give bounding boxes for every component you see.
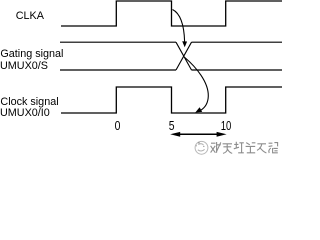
bus crossover X bbox=[176, 42, 192, 70]
svg-text:UMUX0/S: UMUX0/S bbox=[0, 60, 48, 72]
svg-text:0: 0 bbox=[115, 118, 121, 133]
bus Gating top line right bbox=[192, 41, 283, 43]
double-headed arrow between 5 and 10 bbox=[170, 132, 226, 137]
svg-text:Clock signal: Clock signal bbox=[0, 96, 58, 108]
svg-text:10: 10 bbox=[221, 118, 232, 133]
svg-text:5: 5 bbox=[169, 118, 175, 133]
bus Gating top line left bbox=[60, 41, 176, 43]
watermark logo circle bbox=[195, 141, 208, 154]
watermark text (stylized CJK strokes) bbox=[211, 142, 278, 154]
arrow from crossover to Clock signal bbox=[185, 58, 209, 113]
bus Gating bottom line left bbox=[60, 69, 176, 71]
arrow from CLKA falling edge to crossover bbox=[173, 10, 188, 48]
waveform CLKA bbox=[61, 1, 282, 26]
svg-text:Gating signal: Gating signal bbox=[0, 48, 63, 60]
svg-text:UMUX0/I0: UMUX0/I0 bbox=[0, 107, 50, 119]
bus Gating bottom line right bbox=[192, 69, 283, 71]
svg-text:CLKA: CLKA bbox=[16, 10, 45, 22]
waveform Clock signal bbox=[61, 87, 282, 113]
